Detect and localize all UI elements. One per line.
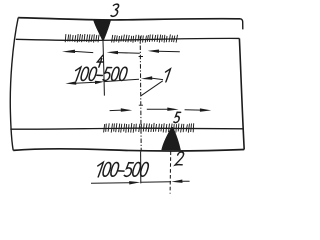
bottom dimension line middle segment xyxy=(140,181,171,184)
plate left edge xyxy=(10,18,18,151)
axis tick marks xyxy=(139,57,143,106)
weld direction arrow (bottom row, middle) xyxy=(167,108,178,111)
top seam hatching xyxy=(65,34,177,43)
plate bottom edge xyxy=(13,149,244,151)
dimension text 100-500 (top) xyxy=(73,67,128,81)
weld direction arrow (top row, right) xyxy=(148,50,159,53)
bottom seam hatching xyxy=(104,123,194,133)
bottom dimension right arrow with tail xyxy=(171,180,182,183)
weld direction arrow (bottom row, right) xyxy=(200,108,211,111)
top dimension left tail with outward arrow xyxy=(65,81,76,84)
extension line below axis (solid) xyxy=(140,152,142,184)
leader line from label 1 to axis xyxy=(141,81,163,96)
dash-dot centerline axis xyxy=(140,36,141,151)
top dimension line middle segment xyxy=(104,79,139,81)
plate right edge xyxy=(239,38,244,149)
weld bead 5 (filled tack weld, bottom) xyxy=(162,127,181,150)
top dimension right arrow with tail to label 1 xyxy=(141,76,152,79)
weld direction arrow (top row, middle) xyxy=(107,51,118,54)
top dimension arrow at weld-3 centerline xyxy=(95,81,104,84)
weld bead 3 (filled tack weld, top) xyxy=(93,20,110,41)
weld direction arrow (top row, left of bead 3) xyxy=(62,50,75,53)
label 3 (weld number, top) xyxy=(111,4,120,16)
plate top edge xyxy=(18,18,240,20)
dashed centerline below weld 2 xyxy=(169,151,172,193)
top weld seam line xyxy=(16,38,240,40)
weld direction arrow (bottom row, left) xyxy=(121,108,132,111)
plate top-right corner hook xyxy=(241,19,243,30)
label 1 (axis callout) xyxy=(163,69,170,82)
dimension text 100-500 (bottom) xyxy=(95,162,149,177)
label 5 (weld number, bottom) xyxy=(174,112,181,122)
centerline below weld 3 (solid) xyxy=(103,41,104,96)
label 4 (weld number) xyxy=(96,55,104,67)
bottom dimension line left tail with arrow xyxy=(91,182,130,185)
bottom weld seam line xyxy=(10,128,243,129)
label 2 (weld number, bottom) xyxy=(175,152,185,165)
